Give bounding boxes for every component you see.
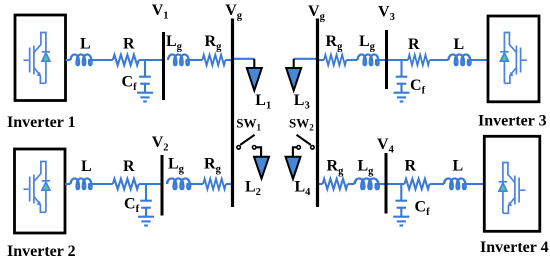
resistor Rg (inverter 1 branch) — [202, 55, 225, 65]
svg-text:Vg: Vg — [225, 2, 243, 22]
node Vg left bus bar — [231, 19, 234, 208]
inductor Lg (inverter 1 branch) — [168, 54, 189, 65]
svg-text:Cf: Cf — [124, 196, 140, 216]
svg-text:Inverter 2: Inverter 2 — [7, 243, 76, 260]
wire R to bus V1 — [139, 59, 162, 61]
node V2 bus bar — [161, 155, 164, 216]
wire L to inverter 3 — [471, 59, 488, 61]
inductor L (inverter 1 branch) — [71, 54, 92, 65]
resistor R (inverter 1 branch) — [113, 55, 139, 65]
IGBT symbol inside inverter U3 (mirrored) — [500, 33, 527, 84]
svg-text:Rg: Rg — [205, 33, 223, 53]
wire L to R — [92, 183, 113, 185]
wire R to L — [430, 183, 444, 185]
svg-text:L: L — [81, 158, 92, 175]
inductor Lg (inverter 4 branch) — [355, 178, 380, 189]
switch SW1 blade — [240, 135, 254, 145]
svg-text:Cf: Cf — [410, 77, 426, 97]
svg-text:V4: V4 — [377, 136, 395, 156]
svg-text:Lg: Lg — [358, 158, 375, 178]
inductor L (inverter 3 branch) — [449, 54, 471, 65]
IGBT symbol inside inverter U2 — [24, 162, 51, 213]
inverter U2 box — [15, 149, 66, 233]
node Vg right bus bar — [316, 19, 319, 208]
wire stub bus to load L1 — [234, 58, 254, 60]
IGBT symbol inside inverter U4 (mirrored) — [499, 163, 526, 214]
wire inverter1 to L — [66, 59, 71, 61]
svg-text:R: R — [405, 158, 417, 175]
node V3 bus bar — [385, 30, 388, 89]
svg-text:L: L — [454, 36, 465, 53]
capacitor Cf with ground (inverter 3 branch) — [394, 60, 410, 102]
svg-text:Inverter 1: Inverter 1 — [7, 114, 76, 131]
node V1 bus bar — [162, 32, 165, 100]
svg-text:L2: L2 — [245, 179, 261, 199]
svg-text:L1: L1 — [255, 92, 271, 112]
capacitor Cf with ground (inverter 4 branch) — [393, 184, 409, 226]
svg-text:Cf: Cf — [122, 74, 138, 94]
resistor R (inverter 3 branch) — [408, 55, 430, 65]
wire Rg to left grid bus — [225, 59, 231, 61]
svg-text:V2: V2 — [152, 134, 169, 154]
wire SW1 to load L2 — [256, 147, 261, 156]
resistor R (inverter 2 branch) — [113, 179, 139, 189]
load arrow L1 — [247, 59, 262, 91]
wire right bus to Rg (inverter 3 branch) — [319, 59, 324, 61]
wire Rg to Lg — [346, 59, 357, 61]
svg-text:Rg: Rg — [326, 33, 344, 53]
svg-text:L3: L3 — [294, 92, 310, 112]
svg-text:Lg: Lg — [359, 33, 376, 53]
inductor Lg (inverter 2 branch) — [167, 178, 191, 189]
svg-text:R: R — [123, 36, 135, 53]
wire Lg to bus V3 and R — [379, 59, 408, 61]
load arrow L3 — [286, 59, 301, 91]
svg-text:V3: V3 — [378, 4, 395, 24]
svg-text:L: L — [453, 158, 464, 175]
wire inverter2 to L — [65, 183, 71, 185]
svg-text:Inverter 4: Inverter 4 — [480, 239, 549, 256]
inverter U3 box — [488, 16, 539, 102]
switch SW2 pole circle on bus — [311, 146, 315, 150]
resistor Rg (inverter 4 branch) — [323, 179, 348, 189]
switch SW1 throw circle — [252, 146, 256, 150]
wire R to bus V2 — [139, 183, 161, 185]
svg-text:R: R — [123, 158, 135, 175]
wire Rg to Lg — [348, 183, 355, 185]
wire right bus to Rg (inverter 4 branch) — [319, 183, 323, 185]
inductor Lg (inverter 3 branch) — [358, 54, 379, 65]
switch SW1 pole circle on bus — [237, 146, 241, 150]
svg-text:SW2: SW2 — [289, 116, 314, 133]
inverter U4 box — [484, 136, 540, 231]
resistor R (inverter 4 branch) — [405, 179, 430, 189]
wire SW2 to load L4 — [293, 147, 297, 156]
svg-text:Rg: Rg — [204, 156, 222, 176]
wire Lg to Rg — [189, 59, 202, 61]
switch SW2 blade — [297, 135, 311, 145]
svg-text:Lg: Lg — [166, 33, 183, 53]
svg-text:Rg: Rg — [327, 158, 345, 178]
svg-text:Vg: Vg — [308, 3, 326, 23]
wire Rg to left grid bus — [226, 183, 231, 185]
svg-text:L4: L4 — [295, 179, 312, 199]
capacitor Cf with ground (inverter 1 branch) — [137, 60, 153, 102]
capacitor Cf with ground (inverter 2 branch) — [138, 184, 154, 226]
wire Lg to bus V4 and R — [379, 183, 405, 185]
svg-text:R: R — [408, 36, 420, 53]
node V4 bus bar — [385, 153, 388, 214]
wire Lg to Rg — [191, 183, 204, 185]
load arrow L4 — [286, 157, 301, 179]
wire R to L — [430, 59, 449, 61]
inverter U1 box — [15, 15, 66, 101]
resistor Rg (inverter 2 branch) — [203, 179, 226, 189]
resistor Rg (inverter 3 branch) — [324, 55, 346, 65]
inductor L (inverter 4 branch) — [444, 178, 466, 189]
svg-text:L: L — [80, 36, 91, 53]
load arrow L2 — [254, 157, 269, 179]
svg-text:V1: V1 — [152, 2, 169, 22]
svg-text:Lg: Lg — [168, 156, 185, 176]
wire stub bus to load L3 — [294, 58, 316, 60]
svg-text:SW1: SW1 — [236, 116, 261, 133]
wire L to R — [92, 59, 113, 61]
switch SW2 throw circle — [297, 146, 301, 150]
inductor L (inverter 2 branch) — [71, 178, 92, 189]
svg-text:Inverter 3: Inverter 3 — [478, 113, 547, 130]
wire L to inverter 4 — [466, 183, 484, 185]
IGBT symbol inside inverter U1 — [24, 33, 51, 84]
svg-text:Cf: Cf — [415, 199, 431, 219]
